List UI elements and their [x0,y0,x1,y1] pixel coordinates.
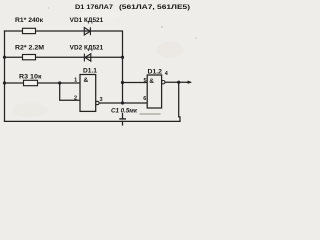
svg-text:VD2 КД521: VD2 КД521 [70,46,104,52]
svg-text:R1* 240к: R1* 240к [15,18,43,24]
svg-text:6: 6 [143,96,146,102]
svg-text:D1 176ЛА7: D1 176ЛА7 [75,5,114,11]
svg-text:&: & [149,78,154,85]
svg-text:2: 2 [74,96,77,102]
svg-text:R2* 2.2M: R2* 2.2M [15,46,44,52]
svg-text:3: 3 [100,97,103,103]
svg-text:5: 5 [143,78,146,84]
svg-text:С1 0.5мк: С1 0.5мк [111,108,138,114]
svg-text:D1.2: D1.2 [148,70,163,76]
svg-text:VD1 КД521: VD1 КД521 [70,18,104,24]
svg-text:(561ЛА7, 561ЛЕ5): (561ЛА7, 561ЛЕ5) [119,5,190,11]
svg-text:1: 1 [74,78,77,84]
svg-text:&: & [84,77,89,84]
svg-text:R3 10к: R3 10к [19,75,42,81]
svg-text:D1.1: D1.1 [83,69,98,75]
